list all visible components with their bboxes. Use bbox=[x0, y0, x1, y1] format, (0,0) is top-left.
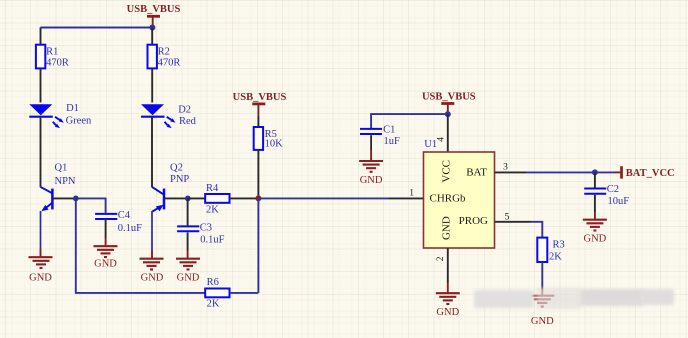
wire D2 to Q2 collector bbox=[151, 117, 153, 187]
wire junction to U1 pin1 bbox=[258, 197, 389, 199]
wire R3 to GND bbox=[541, 262, 543, 288]
pin 5 (PROG) bbox=[495, 212, 532, 222]
svg-text:C2: C2 bbox=[607, 184, 619, 195]
svg-text:GND: GND bbox=[94, 259, 117, 270]
svg-text:CHRGb: CHRGb bbox=[430, 192, 467, 204]
resistor R6 bbox=[205, 277, 229, 310]
wire pin5 to R3 bbox=[531, 222, 542, 238]
svg-text:GND: GND bbox=[360, 175, 383, 186]
svg-text:GND: GND bbox=[29, 273, 52, 284]
svg-text:NPN: NPN bbox=[55, 176, 76, 187]
svg-text:10uF: 10uF bbox=[608, 196, 630, 207]
svg-text:1uF: 1uF bbox=[384, 136, 401, 147]
svg-text:C3: C3 bbox=[200, 222, 212, 233]
junction (USB_VBUS / pin4) bbox=[445, 111, 451, 117]
svg-text:USB_VBUS: USB_VBUS bbox=[127, 4, 181, 15]
svg-text:2K: 2K bbox=[206, 205, 219, 216]
wire junction to C3 bbox=[187, 198, 189, 225]
svg-text:USB_VBUS: USB_VBUS bbox=[422, 91, 476, 102]
svg-text:2: 2 bbox=[436, 256, 446, 261]
svg-text:GND: GND bbox=[141, 273, 164, 284]
svg-text:C4: C4 bbox=[118, 210, 131, 221]
svg-text:4: 4 bbox=[436, 137, 446, 142]
wire R6 to junction riser bbox=[230, 292, 259, 294]
resistor R4 bbox=[205, 183, 229, 216]
svg-text:GND: GND bbox=[436, 307, 459, 318]
svg-text:Q2: Q2 bbox=[170, 163, 183, 174]
wire C1 to GND bbox=[370, 135, 372, 150]
wire R5 to junction bbox=[257, 150, 259, 199]
power port BAT_VCC bbox=[615, 166, 675, 179]
svg-text:U1: U1 bbox=[424, 139, 437, 150]
svg-text:0.1uF: 0.1uF bbox=[200, 234, 224, 245]
svg-text:Red: Red bbox=[179, 116, 197, 127]
wire Q1 base to C4 bbox=[76, 198, 106, 213]
junction (Q2 base / C3 / R4) bbox=[185, 196, 191, 202]
svg-text:2K: 2K bbox=[207, 299, 220, 310]
svg-text:D2: D2 bbox=[178, 105, 191, 116]
wire junction down to R6 bbox=[257, 198, 259, 293]
svg-text:BAT_VCC: BAT_VCC bbox=[626, 168, 675, 179]
svg-text:PNP: PNP bbox=[170, 174, 189, 185]
svg-text:5: 5 bbox=[505, 212, 510, 222]
ground (U1 pin2) bbox=[436, 293, 460, 318]
svg-text:R3: R3 bbox=[553, 240, 565, 251]
wire power to R5 bbox=[257, 116, 259, 127]
resistor R3 bbox=[537, 238, 564, 263]
svg-text:Q1: Q1 bbox=[55, 163, 68, 174]
svg-text:10K: 10K bbox=[265, 138, 284, 149]
resistor R2 bbox=[148, 45, 181, 69]
junction (R4/R5/R6/pin1 node) bbox=[255, 195, 261, 201]
wire Q1 emitter to GND bbox=[40, 211, 42, 249]
ground (C3) bbox=[176, 259, 200, 284]
power port USB_VBUS (R5) bbox=[233, 92, 287, 116]
svg-text:470R: 470R bbox=[158, 57, 181, 68]
svg-text:3: 3 bbox=[503, 163, 508, 173]
LED D2 bbox=[141, 104, 197, 128]
resistor R5 bbox=[254, 127, 283, 150]
wire pin3 to BAT_VCC bbox=[527, 171, 615, 173]
svg-text:PROG: PROG bbox=[459, 215, 488, 227]
wire pin2 to GND bbox=[447, 283, 449, 293]
transistor Q2 bbox=[152, 163, 189, 212]
svg-text:GND: GND bbox=[584, 234, 607, 245]
ground (C4) bbox=[94, 246, 118, 269]
pin 4 (VCC) bbox=[436, 114, 448, 152]
pin 2 (GND) bbox=[436, 248, 448, 283]
svg-text:470R: 470R bbox=[46, 57, 69, 68]
junction (top rail / USB_VBUS) bbox=[149, 25, 155, 31]
svg-text:GND: GND bbox=[177, 273, 200, 284]
wire R1 to D1 bbox=[40, 68, 42, 102]
wire D1 to Q1 collector bbox=[40, 117, 42, 187]
resistor R1 bbox=[36, 45, 69, 69]
svg-text:GND: GND bbox=[440, 216, 452, 240]
ground (Q1 emitter) bbox=[29, 257, 53, 283]
wire R4 to junction bbox=[230, 197, 259, 199]
capacitor C4 bbox=[95, 210, 142, 234]
ground (C1) bbox=[359, 161, 383, 186]
transistor Q1 bbox=[41, 163, 76, 212]
op-amp U1 body bbox=[424, 139, 495, 248]
svg-text:D1: D1 bbox=[66, 103, 79, 114]
svg-text:1: 1 bbox=[409, 189, 414, 199]
svg-text:0.1uF: 0.1uF bbox=[118, 223, 142, 234]
watermark bbox=[474, 288, 674, 311]
ground (R3) bbox=[530, 296, 554, 327]
wire to R2 bbox=[151, 28, 153, 45]
svg-text:R4: R4 bbox=[206, 183, 219, 194]
power port USB_VBUS (U1) bbox=[422, 91, 476, 114]
wire top rail bbox=[41, 27, 153, 29]
pin 1 (CHRGb) bbox=[389, 189, 424, 199]
wire to R1 bbox=[40, 28, 42, 45]
svg-text:USB_VBUS: USB_VBUS bbox=[233, 92, 287, 103]
junction (Q1 base node) bbox=[73, 196, 79, 202]
svg-text:Green: Green bbox=[66, 116, 92, 127]
wire C4 to GND bbox=[105, 220, 107, 238]
svg-text:R1: R1 bbox=[46, 47, 58, 58]
capacitor C1 bbox=[360, 124, 400, 147]
svg-text:C1: C1 bbox=[383, 124, 395, 135]
capacitor C2 bbox=[584, 184, 629, 207]
wire junction to C2 bbox=[594, 172, 596, 187]
junction (BAT / C2) bbox=[592, 169, 598, 175]
svg-text:VCC: VCC bbox=[440, 160, 452, 183]
wire USB_VBUS rail to C1 bbox=[371, 114, 448, 128]
wire Q2 emitter to GND bbox=[151, 211, 153, 250]
svg-text:R6: R6 bbox=[207, 277, 219, 288]
wire C2 to GND bbox=[594, 195, 596, 212]
svg-text:2K: 2K bbox=[549, 252, 562, 263]
ground (C2) bbox=[583, 220, 607, 245]
wire Q1 base node down to R6 bbox=[76, 198, 205, 293]
svg-text:R2: R2 bbox=[158, 47, 170, 58]
pin 3 (BAT) bbox=[495, 163, 527, 173]
ground (Q2 emitter) bbox=[140, 259, 164, 284]
capacitor C3 bbox=[177, 222, 224, 245]
wire junction to R4 bbox=[188, 197, 206, 199]
svg-text:GND: GND bbox=[531, 316, 554, 327]
LED D1 bbox=[29, 103, 92, 128]
wire R2 to D2 bbox=[151, 68, 153, 102]
svg-text:BAT: BAT bbox=[466, 166, 487, 178]
power port USB_VBUS (top) bbox=[127, 4, 181, 28]
wire C3 to GND bbox=[187, 233, 189, 251]
